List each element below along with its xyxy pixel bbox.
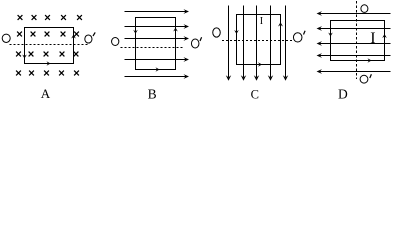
field line 4 with right arrow, panel B <box>125 57 190 62</box>
current arrow right edge (up), panel D <box>382 34 387 38</box>
field line 1 with right arrow, panel B <box>125 9 190 14</box>
label O, panel B <box>112 38 119 46</box>
field line 1 with left arrow, panel D <box>317 11 391 16</box>
axis OO' dashed vertical line, panel D <box>356 1 358 79</box>
current arrow bottom edge (right), panel D <box>368 58 372 62</box>
field line 1 with down arrow, panel C <box>226 6 231 81</box>
svg-text:B: B <box>148 86 157 101</box>
label O', panel C <box>293 31 305 42</box>
rectangular current loop, panel C <box>237 15 281 65</box>
current arrow right edge (up), panel C <box>278 22 283 26</box>
svg-text:D: D <box>338 86 348 101</box>
rectangular current loop, panel B <box>136 18 176 70</box>
current arrow bottom edge (right), panel A <box>47 61 51 65</box>
field line 4 with left arrow, panel D <box>317 53 391 58</box>
current arrow left edge (down), panel C <box>234 30 239 34</box>
field line 5 with down arrow, panel C <box>283 6 288 81</box>
field line 2 with left arrow, panel D <box>317 26 391 31</box>
field line 3 with down arrow, panel C <box>254 6 259 81</box>
svg-text:I: I <box>260 16 263 27</box>
field line 5 with left arrow, panel D <box>317 69 391 74</box>
field line 2 with down arrow, panel C <box>241 6 246 81</box>
label O, panel A <box>2 34 10 42</box>
rectangular current loop, panel A <box>25 28 74 64</box>
axis OO' dotted line, panel C <box>222 40 293 42</box>
svg-text:I: I <box>370 30 375 47</box>
current arrow bottom edge (right), panel B <box>156 67 160 71</box>
svg-text:A: A <box>41 86 51 101</box>
field line 3 with left arrow, panel D <box>317 41 391 46</box>
label O, panel C <box>213 28 221 37</box>
axis OO' dotted line, panel B <box>121 47 185 49</box>
current arrow left edge (down), panel A <box>22 55 27 59</box>
axis OO' dotted line, panel A <box>10 44 90 46</box>
field line 2 with right arrow, panel B <box>125 24 190 29</box>
label O', panel B <box>191 37 201 48</box>
field line 4 with down arrow, panel C <box>268 6 273 81</box>
label O, panel D <box>361 5 368 13</box>
svg-text:C: C <box>251 87 259 101</box>
field line 5 with right arrow, panel B <box>125 74 190 79</box>
rectangular current loop, panel D <box>331 21 385 61</box>
current arrow right edge (up), panel A <box>71 35 76 39</box>
label O', panel A <box>85 32 95 43</box>
magnetic field into page (x symbols), panel A <box>16 15 82 75</box>
current arrow left edge (down), panel B <box>133 30 138 34</box>
current arrow right edge (up), panel B <box>173 28 178 32</box>
current arrow bottom edge (right), panel C <box>258 62 262 66</box>
current arrow left edge (down), panel D <box>328 33 333 37</box>
label O', panel D <box>360 74 371 83</box>
field line 3 with right arrow, panel B <box>125 36 190 41</box>
